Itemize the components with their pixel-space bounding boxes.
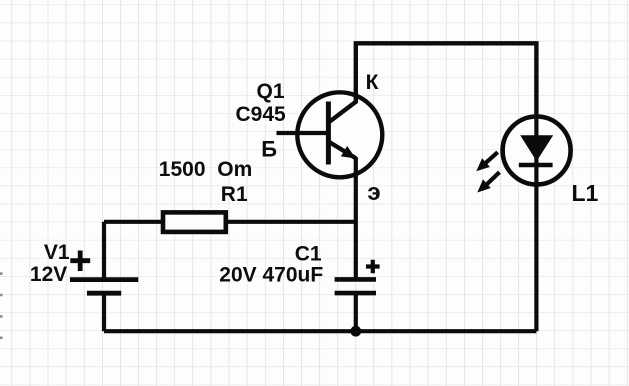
wire battery top to resistor: [104, 220, 162, 224]
svg-text:R1: R1: [221, 183, 248, 206]
svg-text:L1: L1: [572, 180, 599, 206]
svg-text:э: э: [367, 179, 380, 206]
battery V1 short plate: [87, 291, 121, 296]
wire resistor to emitter node: [227, 220, 356, 224]
svg-text:Om: Om: [217, 158, 252, 181]
svg-text:12V: 12V: [30, 263, 67, 286]
capacitor C1 bottom plate: [335, 291, 376, 296]
LED L1 cathode bar: [519, 163, 553, 168]
wire battery negative lead: [102, 293, 106, 331]
wire battery positive lead: [102, 222, 106, 278]
svg-text:Q1: Q1: [256, 80, 284, 103]
LED L1 triangle: [520, 135, 553, 161]
transistor Q1 body circle: [297, 92, 382, 177]
svg-text:1500: 1500: [159, 158, 206, 181]
svg-text:C945: C945: [235, 103, 286, 126]
wire LED vertical through circle to bottom rail: [534, 114, 538, 331]
transistor Q1 base bar: [326, 102, 331, 165]
svg-text:Б: Б: [261, 136, 277, 161]
svg-text:20V 470uF: 20V 470uF: [219, 263, 323, 286]
wire bottom rail: [104, 329, 536, 333]
LED L1 body circle: [503, 117, 571, 185]
junction node dot: [350, 326, 361, 337]
capacitor plus sign: [366, 260, 380, 274]
capacitor C1 top plate: [335, 277, 376, 282]
wire emitter diagonal with arrow: [328, 142, 355, 159]
left edge artifact ticks: [0, 274, 3, 338]
wire capacitor to bottom rail: [354, 295, 358, 331]
wire emitter vertical down to capacitor: [354, 157, 358, 277]
LED light arrow lower: [486, 172, 500, 185]
resistor R1 box: [163, 212, 226, 232]
battery plus sign: [70, 251, 90, 272]
svg-text:V1: V1: [44, 241, 70, 264]
wire base lead: [277, 131, 329, 135]
wire collector to top rail to LED: [328, 43, 536, 122]
battery V1 long plate: [70, 277, 138, 282]
svg-text:К: К: [366, 71, 379, 94]
LED light arrow upper: [484, 152, 498, 164]
svg-text:C1: C1: [295, 243, 322, 266]
